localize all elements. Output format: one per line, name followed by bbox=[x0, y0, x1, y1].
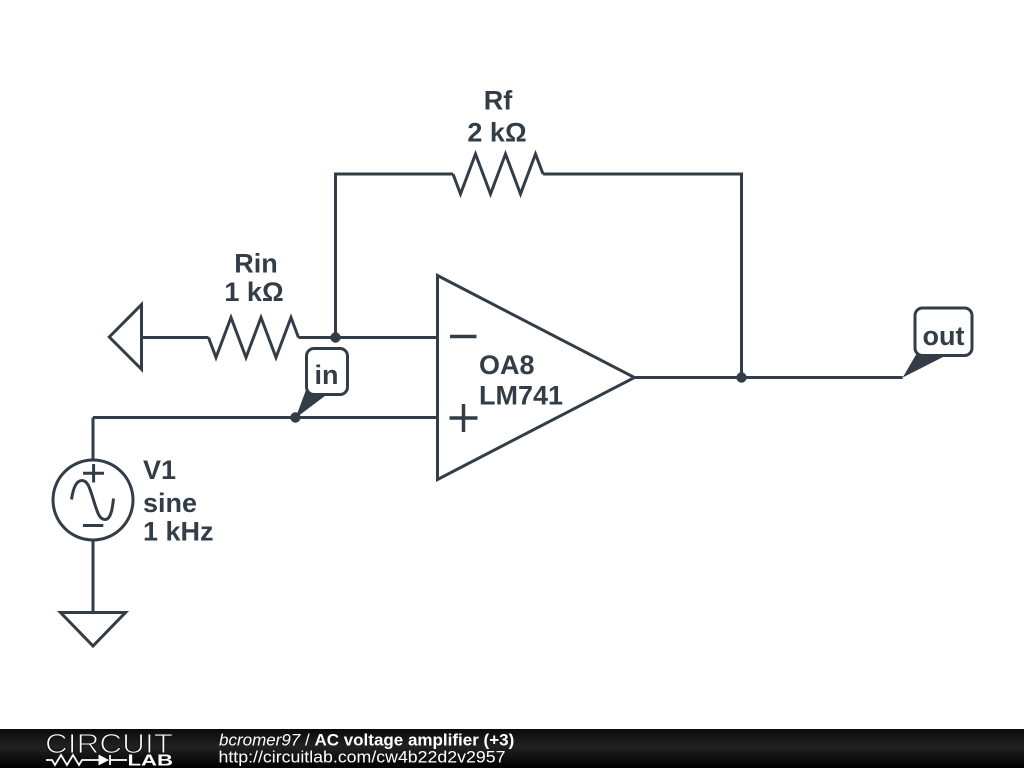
svg-text:1 kΩ: 1 kΩ bbox=[224, 277, 283, 307]
svg-text:Rin: Rin bbox=[234, 249, 278, 279]
svg-text:sine: sine bbox=[143, 488, 197, 518]
svg-text:OA8: OA8 bbox=[479, 350, 535, 380]
svg-text:LAB: LAB bbox=[128, 753, 174, 768]
svg-text:1 kHz: 1 kHz bbox=[143, 517, 214, 547]
svg-text:http://circuitlab.com/cw4b22d2: http://circuitlab.com/cw4b22d2v2957 bbox=[219, 748, 506, 767]
svg-text:in: in bbox=[315, 360, 339, 390]
svg-text:out: out bbox=[923, 321, 965, 351]
svg-text:2 kΩ: 2 kΩ bbox=[467, 118, 526, 148]
svg-text:LM741: LM741 bbox=[479, 381, 563, 411]
svg-text:V1: V1 bbox=[143, 455, 176, 485]
svg-text:Rf: Rf bbox=[484, 86, 513, 116]
